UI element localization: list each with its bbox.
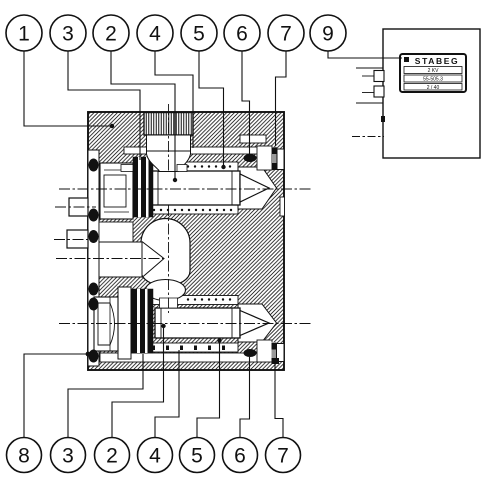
funnel wing right [177,165,187,172]
plug cavity (bottom left) [94,297,118,351]
center chamber bulb [141,218,190,286]
name plate STABEG [400,54,466,92]
centerline port P2 [54,239,96,241]
balloon 6 top [224,15,260,51]
knurled adjuster cap [144,113,193,136]
top sleeve gap band [124,147,264,154]
panel connector lines [356,68,383,103]
svg-text:3: 3 [62,445,74,468]
balloon 3 top [50,15,86,51]
bottom spring gallery lower [143,343,238,352]
bottom sleeve gap band [100,353,266,362]
svg-text:5: 5 [193,23,205,46]
spring funnel [147,151,191,172]
svg-text:6: 6 [236,23,248,46]
svg-text:4: 4 [149,23,161,46]
gland (top left) [100,163,133,219]
bottom bore end cone cavity [238,304,277,342]
leader line 5 top [199,51,224,165]
plug (top right) [257,146,284,170]
svg-text:7: 7 [280,23,292,46]
spring coils (top upper) [187,165,231,167]
leader line 4 top [155,51,193,148]
balloon 7 top [268,15,304,51]
piston (bottom) [155,308,240,338]
balloon 2 top [93,15,129,51]
svg-text:3: 3 [62,23,74,46]
connector lug lower [374,86,384,97]
balloon 1 [6,15,42,51]
valve ball (bottom) [146,280,186,301]
svg-text:9: 9 [322,23,334,46]
port P2 (lower left) [67,230,88,248]
leader line 3 top [68,51,140,160]
spring coils (top lower) [146,209,232,211]
balloon 2 bottom [95,438,130,473]
right face notch [280,197,285,216]
inlet channel [99,242,142,277]
leader line 8 [24,354,86,437]
connector lug upper [374,71,384,82]
svg-text:2 KV: 2 KV [428,68,440,74]
left gallery lower [99,222,133,242]
cap cavity [147,135,191,151]
balloon 3 bottom [51,438,86,473]
seal block (bottom right, item 7 target) [272,358,280,364]
svg-text:6: 6 [234,445,246,468]
svg-text:2: 2 [105,23,117,46]
leader line 4 bottom [155,350,179,437]
sleeve flange step (top right) [240,135,266,143]
svg-text:2 / 40: 2 / 40 [427,85,440,91]
spring coils (bottom lower) [152,346,225,351]
leader line 2 top [111,51,175,178]
svg-text:STABEG: STABEG [415,56,459,66]
piston (top) [152,171,240,205]
funnel wing left [121,165,133,172]
balloon 7 bottom [266,438,301,473]
centerline vertical cap [168,104,170,172]
seal ring (bottom, item 6 target) [244,349,257,357]
balloon 6 bottom [223,438,258,473]
left wall sleeve strip [88,150,99,366]
centerline bottom axis [59,323,312,325]
svg-text:4: 4 [149,445,161,468]
balloon 8 [7,438,42,473]
spring coils (bottom upper) [187,298,231,300]
left gallery column [99,165,133,214]
valve stem neck (bottom) [160,298,178,308]
centerline port P1 [55,206,96,208]
poppet cone (top) [240,174,269,202]
seal stack (bottom) [131,289,153,353]
seal stack (top) [133,157,153,217]
leader line 6 top [242,51,250,155]
top spring gallery lower [143,205,238,214]
seal ring (top, item 6 target) [244,154,257,162]
panel edge tick [381,116,385,122]
top spring gallery upper [145,162,238,171]
leader line 5 bottom [197,342,220,437]
balloon 4 bottom [138,438,173,473]
balloon 4 top [137,15,173,51]
svg-text:55-505.3: 55-505.3 [423,77,443,83]
centerline top axis [59,188,312,190]
leader line 7 bottom [275,364,283,437]
leader line 3 bottom [68,354,143,437]
leader line 1 [24,51,110,126]
svg-text:7: 7 [277,445,289,468]
right panel outline [383,29,480,158]
leader line 9 [328,51,402,58]
svg-text:1: 1 [18,23,30,46]
leader line 7 top [276,51,287,146]
valve body (hatched block) [88,112,284,370]
poppet cone (bottom) [240,311,269,336]
O-ring seals on left wall [89,159,99,363]
plug (bottom right) [257,340,284,362]
port P1 (upper left) [69,198,88,216]
balloon 5 bottom [180,438,215,473]
plate marker square [404,57,409,62]
centerline inlet channel [56,258,164,260]
balloon 5 top [181,15,217,51]
leader line 6 bottom [240,357,250,437]
svg-text:8: 8 [18,445,30,468]
panel centerline [352,136,384,138]
centerline vertical chamber [168,205,170,313]
bottom spring gallery upper [145,296,238,305]
balloon 9 [310,15,346,51]
top bore end cone cavity [238,167,277,209]
leader line 2 bottom [112,328,164,437]
plug poppet (bottom left) [118,287,131,359]
svg-text:5: 5 [191,445,203,468]
svg-text:2: 2 [106,445,118,468]
seat cone lines [142,242,164,278]
